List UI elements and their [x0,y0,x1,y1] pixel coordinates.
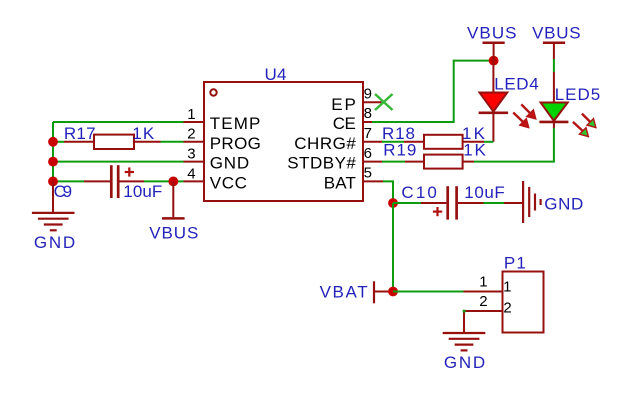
svg-text:7: 7 [364,125,372,142]
resistor R18 [404,135,484,149]
wire rail to R17 left lead [53,141,64,143]
svg-text:LED4: LED4 [494,74,539,93]
U4 pin 7 CHRG# stub [363,141,382,143]
ground symbol GND right (rotated) [504,181,541,223]
svg-text:BAT: BAT [324,174,357,193]
svg-text:GND: GND [444,353,486,372]
wire pin6 to R19 [382,161,405,163]
junction node at rail/pin3 [48,157,58,167]
svg-text:8: 8 [364,105,372,122]
junction node at VBUS/pin4 [168,177,178,187]
LED4 arrow 2 [513,113,529,128]
wire VBAT node to P1 pin1 [393,291,464,293]
LED4 arrow 1 [521,104,536,119]
svg-text:U4: U4 [265,65,287,84]
U4 pin 4 VCC stub [184,180,205,182]
svg-text:PROG: PROG [210,134,262,153]
U4 pin 8 CE stub [363,121,372,123]
power flag VBUS at pin 4 [162,181,185,218]
svg-text:C10: C10 [401,183,437,202]
svg-text:VBUS: VBUS [532,23,581,42]
svg-text:4: 4 [187,165,195,182]
svg-text:CE: CE [333,114,357,133]
svg-text:CHRG#: CHRG# [294,134,356,153]
svg-text:GND: GND [210,154,250,173]
svg-text:STDBY#: STDBY# [287,154,356,173]
ground symbol GND left [32,181,75,230]
junction node BAT/C10 [388,198,398,208]
U4 pin 5 BAT stub [363,180,383,182]
wire pin1 TEMP to left rail [53,121,184,123]
svg-text:LED5: LED5 [555,85,601,104]
connector P1 body [503,272,544,333]
wire C10 to ground flag [484,202,505,204]
svg-text:6: 6 [364,145,372,162]
wire pin8 CE to VBUS junction [372,61,494,122]
LED5 arrow 1 [582,114,596,128]
svg-text:2: 2 [479,293,487,310]
LED5 arrow 2 [573,122,589,137]
U4 pin 2 PROG stub [184,141,205,143]
wire BAT node down to VBAT node [392,203,394,292]
svg-text:VBUS: VBUS [467,23,517,42]
svg-text:3: 3 [187,146,195,163]
wire C9 right lead to pin4 [144,180,184,182]
U4 pin 9 EP stub [363,101,382,103]
wire R17 right lead to pin2 [161,141,184,143]
U4 pin 3 GND stub [184,161,205,163]
svg-text:1: 1 [187,106,195,123]
capacitor C10 [421,186,484,219]
junction node VBAT [388,287,398,297]
power flag VBUS 2 (LED5) [543,43,565,59]
svg-text:P1: P1 [504,253,526,272]
junction node under VBUS flag 1 [489,56,499,66]
svg-text:1: 1 [479,273,487,290]
junction node at rail/C9 [48,177,58,187]
LED4 [479,61,509,142]
svg-text:2: 2 [187,126,195,143]
svg-text:GND: GND [544,195,584,214]
wire pin5 BAT down to BAT node [383,181,393,203]
wire R18 to LED4 cathode [484,141,493,143]
power flag VBUS 1 (LED4) [483,43,505,61]
svg-text:GND: GND [34,233,76,252]
wire VBUS2 to LED5 anode [553,59,555,72]
ground symbol GND bottom [443,333,486,350]
IC U4 body [204,82,363,201]
svg-text:1: 1 [503,279,511,296]
junction node at rail/R17 [48,137,58,147]
svg-text:VBAT: VBAT [320,283,369,302]
wire pin7 to R18 [382,141,404,143]
wire BAT node to C10 [393,202,421,204]
svg-text:VBUS: VBUS [149,223,199,242]
svg-text:1K: 1K [132,124,155,143]
LED5 [539,72,568,128]
wire corner dot at P1 pin2 [463,310,466,313]
wire pin3 GND to left rail [53,161,184,163]
resistor R17 [64,135,161,149]
svg-text:5: 5 [364,165,372,182]
svg-text:1K: 1K [463,141,486,160]
U4 pin 6 STDBY# stub [363,161,382,163]
svg-text:10uF: 10uF [123,182,162,201]
svg-text:VCC: VCC [210,174,248,193]
capacitor C9 [84,165,144,198]
P1 pin 1 lead [464,291,503,293]
svg-text:R19: R19 [383,141,416,160]
svg-text:2: 2 [503,299,511,316]
resistor R19 [405,155,474,169]
wire R19 to LED5 cathode [474,128,554,162]
wire rail to C9 left lead [53,180,84,182]
svg-text:EP: EP [331,95,356,114]
svg-text:10uF: 10uF [464,183,505,202]
svg-text:9: 9 [364,85,372,102]
svg-text:R17: R17 [64,124,96,143]
svg-text:TEMP: TEMP [210,114,261,133]
U4 pin 1 TEMP stub [184,121,205,123]
wire left vertical rail [52,122,54,181]
port flag VBAT [374,281,393,303]
P1 pin 2 lead to GND [464,311,503,332]
no-connect X on pin 9 [375,94,393,110]
